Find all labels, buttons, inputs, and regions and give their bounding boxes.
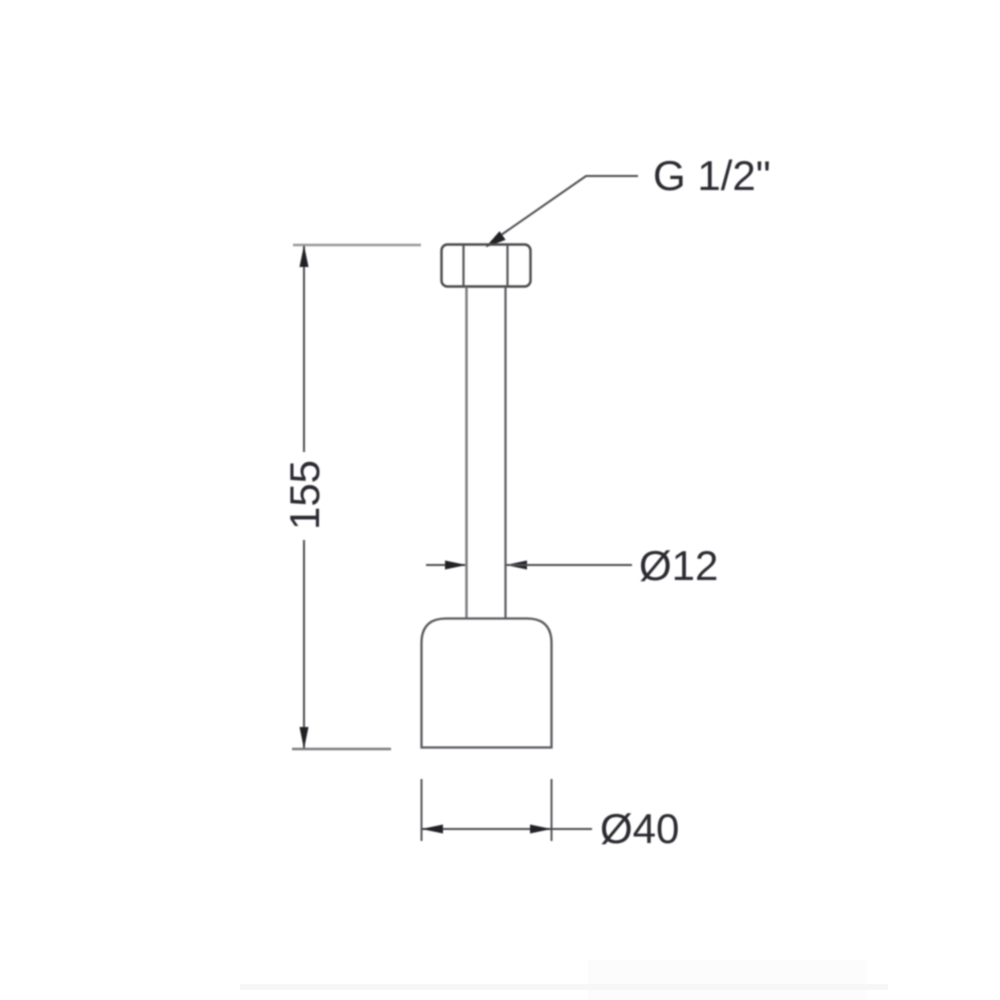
155 dim: lower vertical line: [303, 540, 305, 748]
dia40 dim: right extension line: [551, 779, 553, 841]
body outline (rounded-top cylinder): [422, 619, 552, 748]
faint bottom shadow band: [588, 960, 866, 1000]
svg-text:Ø12: Ø12: [639, 542, 718, 589]
faint bottom shadow line: [240, 984, 888, 990]
hex nut right facet line: [506, 245, 508, 287]
dia40 dim: left arrowhead (pointing left): [422, 825, 444, 834]
hex nut (top fitting): [442, 245, 531, 287]
dia12 dim: right tail: [506, 564, 632, 566]
svg-text:155: 155: [281, 460, 328, 530]
hex nut left facet line: [462, 245, 464, 287]
tube right edge: [504, 287, 506, 619]
155 dim: bottom extension line: [292, 748, 391, 750]
155 dim: bottom arrowhead: [300, 727, 309, 749]
svg-text:Ø40: Ø40: [600, 805, 679, 852]
155 dim: top extension line: [293, 244, 421, 247]
tube left edge: [465, 287, 467, 619]
dia40 dim: dimension line: [422, 828, 593, 830]
leader line to G 1/2": [491, 176, 638, 242]
155 dim: top arrowhead: [300, 245, 309, 267]
155 dim: upper vertical line: [303, 246, 305, 452]
dia12 dim: right arrowhead (pointing left): [506, 561, 528, 570]
dia12 dim: left arrowhead (pointing right): [445, 561, 467, 570]
leader arrowhead: [486, 232, 505, 248]
dia40 dim: right arrowhead (pointing right): [530, 825, 552, 834]
svg-text:G 1/2": G 1/2": [653, 152, 771, 199]
dia12 dim: left tail: [426, 564, 465, 566]
dia40 dim: left extension line: [421, 779, 423, 841]
